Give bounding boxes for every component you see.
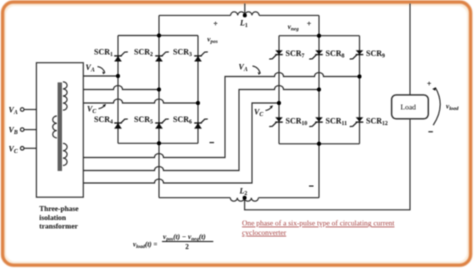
node return B / N leg2	[317, 88, 321, 92]
N-bridge leg 1	[278, 36, 280, 144]
svg-text:isolation: isolation	[39, 213, 66, 222]
arrow v_load arc	[432, 87, 440, 125]
label VC input	[9, 144, 18, 155]
thyristor SCR7	[269, 50, 283, 59]
thyristor SCR2	[155, 52, 169, 62]
thyristor SCR3	[194, 52, 208, 62]
svg-text:cycloconverter: cycloconverter	[242, 228, 287, 237]
inductor L1	[231, 12, 259, 16]
label SCR9	[366, 49, 385, 60]
wire P-bridge to L2 riser	[158, 143, 160, 197]
svg-text:+: +	[213, 19, 218, 28]
SCR symbols	[114, 50, 363, 128]
node phase B / P leg2	[157, 88, 161, 92]
caption red	[242, 219, 395, 237]
node return C / N leg1	[277, 101, 281, 105]
thyristor SCR12	[350, 117, 364, 126]
svg-text:Three-phase: Three-phase	[39, 204, 79, 213]
wire load top riser	[409, 4, 411, 95]
label SCR5	[134, 115, 153, 126]
label SCR10	[286, 117, 308, 128]
transformer box	[36, 63, 83, 198]
inductor L2	[230, 198, 258, 202]
svg-text:transformer: transformer	[39, 222, 78, 231]
label L2	[239, 187, 248, 198]
wire top rail left	[159, 14, 231, 16]
node P top bus / L1	[157, 34, 161, 38]
svg-text:2: 2	[185, 243, 189, 251]
label SCR12	[366, 117, 388, 128]
transformer core	[58, 82, 62, 171]
label v_neg	[288, 23, 299, 33]
load box	[392, 95, 429, 119]
label VA left	[86, 63, 95, 74]
label three-phase isolation transformer	[39, 204, 79, 231]
svg-text:Load: Load	[401, 103, 417, 112]
plus sign v_neg	[307, 19, 312, 28]
plus sign v_pos	[213, 19, 218, 28]
label VA right	[239, 63, 248, 74]
label SCR1	[94, 48, 113, 59]
P-bridge top bus	[118, 35, 198, 37]
label SCR4	[94, 115, 113, 126]
svg-text:One phase of a six-pulse type: One phase of a six-pulse type of circula…	[242, 219, 395, 228]
wire L1 center tap	[244, 4, 246, 16]
label VB input	[9, 126, 18, 137]
label SCR11	[326, 117, 348, 128]
wire secondary return 3	[83, 103, 279, 183]
label Load	[401, 103, 417, 112]
node N top bus / L1	[317, 34, 321, 38]
P-bridge bottom bus	[118, 142, 198, 144]
label SCR7	[286, 49, 305, 60]
arrow VA left	[98, 67, 105, 75]
N-bridge leg 2	[318, 36, 320, 144]
wire top rail right	[259, 14, 319, 16]
input terminal VB	[20, 128, 36, 132]
node phase C / P leg3	[196, 101, 200, 105]
plus sign load	[427, 79, 432, 88]
wire secondary return 2	[83, 86, 319, 171]
label VA input	[9, 106, 18, 117]
wire bottom rail right	[258, 197, 319, 199]
wire phase C to P-bridge (hops over leg1, leg2)	[83, 99, 198, 103]
N-bridge leg 3	[359, 36, 361, 144]
label SCR6	[173, 115, 192, 126]
arrow VA right	[253, 66, 261, 75]
svg-text:+: +	[427, 79, 432, 88]
node P bottom bus / L2	[157, 141, 161, 145]
arrow VC left	[99, 104, 106, 109]
node L1 center tap	[243, 13, 247, 17]
wire P-bridge to L1 riser	[158, 15, 160, 35]
P-bridge leg 2	[158, 36, 160, 144]
label SCR3	[173, 48, 192, 59]
thyristor SCR10	[269, 117, 283, 126]
P-bridge leg 3	[197, 36, 199, 144]
label SCR8	[326, 49, 345, 60]
minus sign load	[428, 131, 433, 132]
thyristor SCR6	[194, 119, 208, 129]
wire N-bridge to L2 riser	[318, 144, 320, 198]
wire phase A to P-bridge	[83, 75, 118, 77]
N-bridge bottom bus	[279, 143, 360, 145]
minus sign v_pos	[210, 142, 215, 143]
transformer winding primary	[53, 116, 57, 138]
P-bridge leg 1	[117, 36, 119, 144]
thyristor SCR8	[309, 50, 323, 59]
label VC left	[87, 105, 96, 116]
node return A / N leg3	[358, 75, 362, 79]
thyristor SCR5	[155, 119, 169, 129]
thyristor SCR4	[114, 119, 128, 129]
node L2 center tap	[243, 196, 247, 200]
minus sign v_neg	[309, 186, 314, 187]
wire L2 center tap to load	[245, 119, 410, 210]
input terminal VA	[20, 108, 36, 112]
wire N-bridge to L1 riser	[318, 15, 320, 35]
node phase A / P leg1	[116, 74, 120, 78]
arrow VC right	[266, 106, 273, 111]
input terminal VC	[20, 147, 36, 151]
N-bridge top bus	[279, 35, 360, 37]
label v_load	[446, 103, 459, 113]
transformer winding secondary top	[63, 82, 67, 110]
svg-text:+: +	[307, 19, 312, 28]
label L1	[239, 19, 248, 30]
wire secondary return 1	[83, 73, 359, 158]
wire bottom rail left	[159, 197, 230, 199]
wire phase B to P-bridge (hop over leg1)	[83, 86, 159, 90]
label SCR2	[134, 48, 153, 59]
arrows	[98, 66, 441, 125]
node N bottom bus / L2	[317, 142, 321, 146]
label VC right	[254, 108, 263, 119]
formula v_load(t)	[133, 233, 213, 251]
label v_pos	[207, 36, 217, 46]
transformer winding secondary bottom	[63, 143, 67, 165]
thyristor SCR11	[309, 117, 323, 126]
thyristor SCR9	[350, 50, 364, 59]
thyristor SCR1	[114, 52, 128, 62]
